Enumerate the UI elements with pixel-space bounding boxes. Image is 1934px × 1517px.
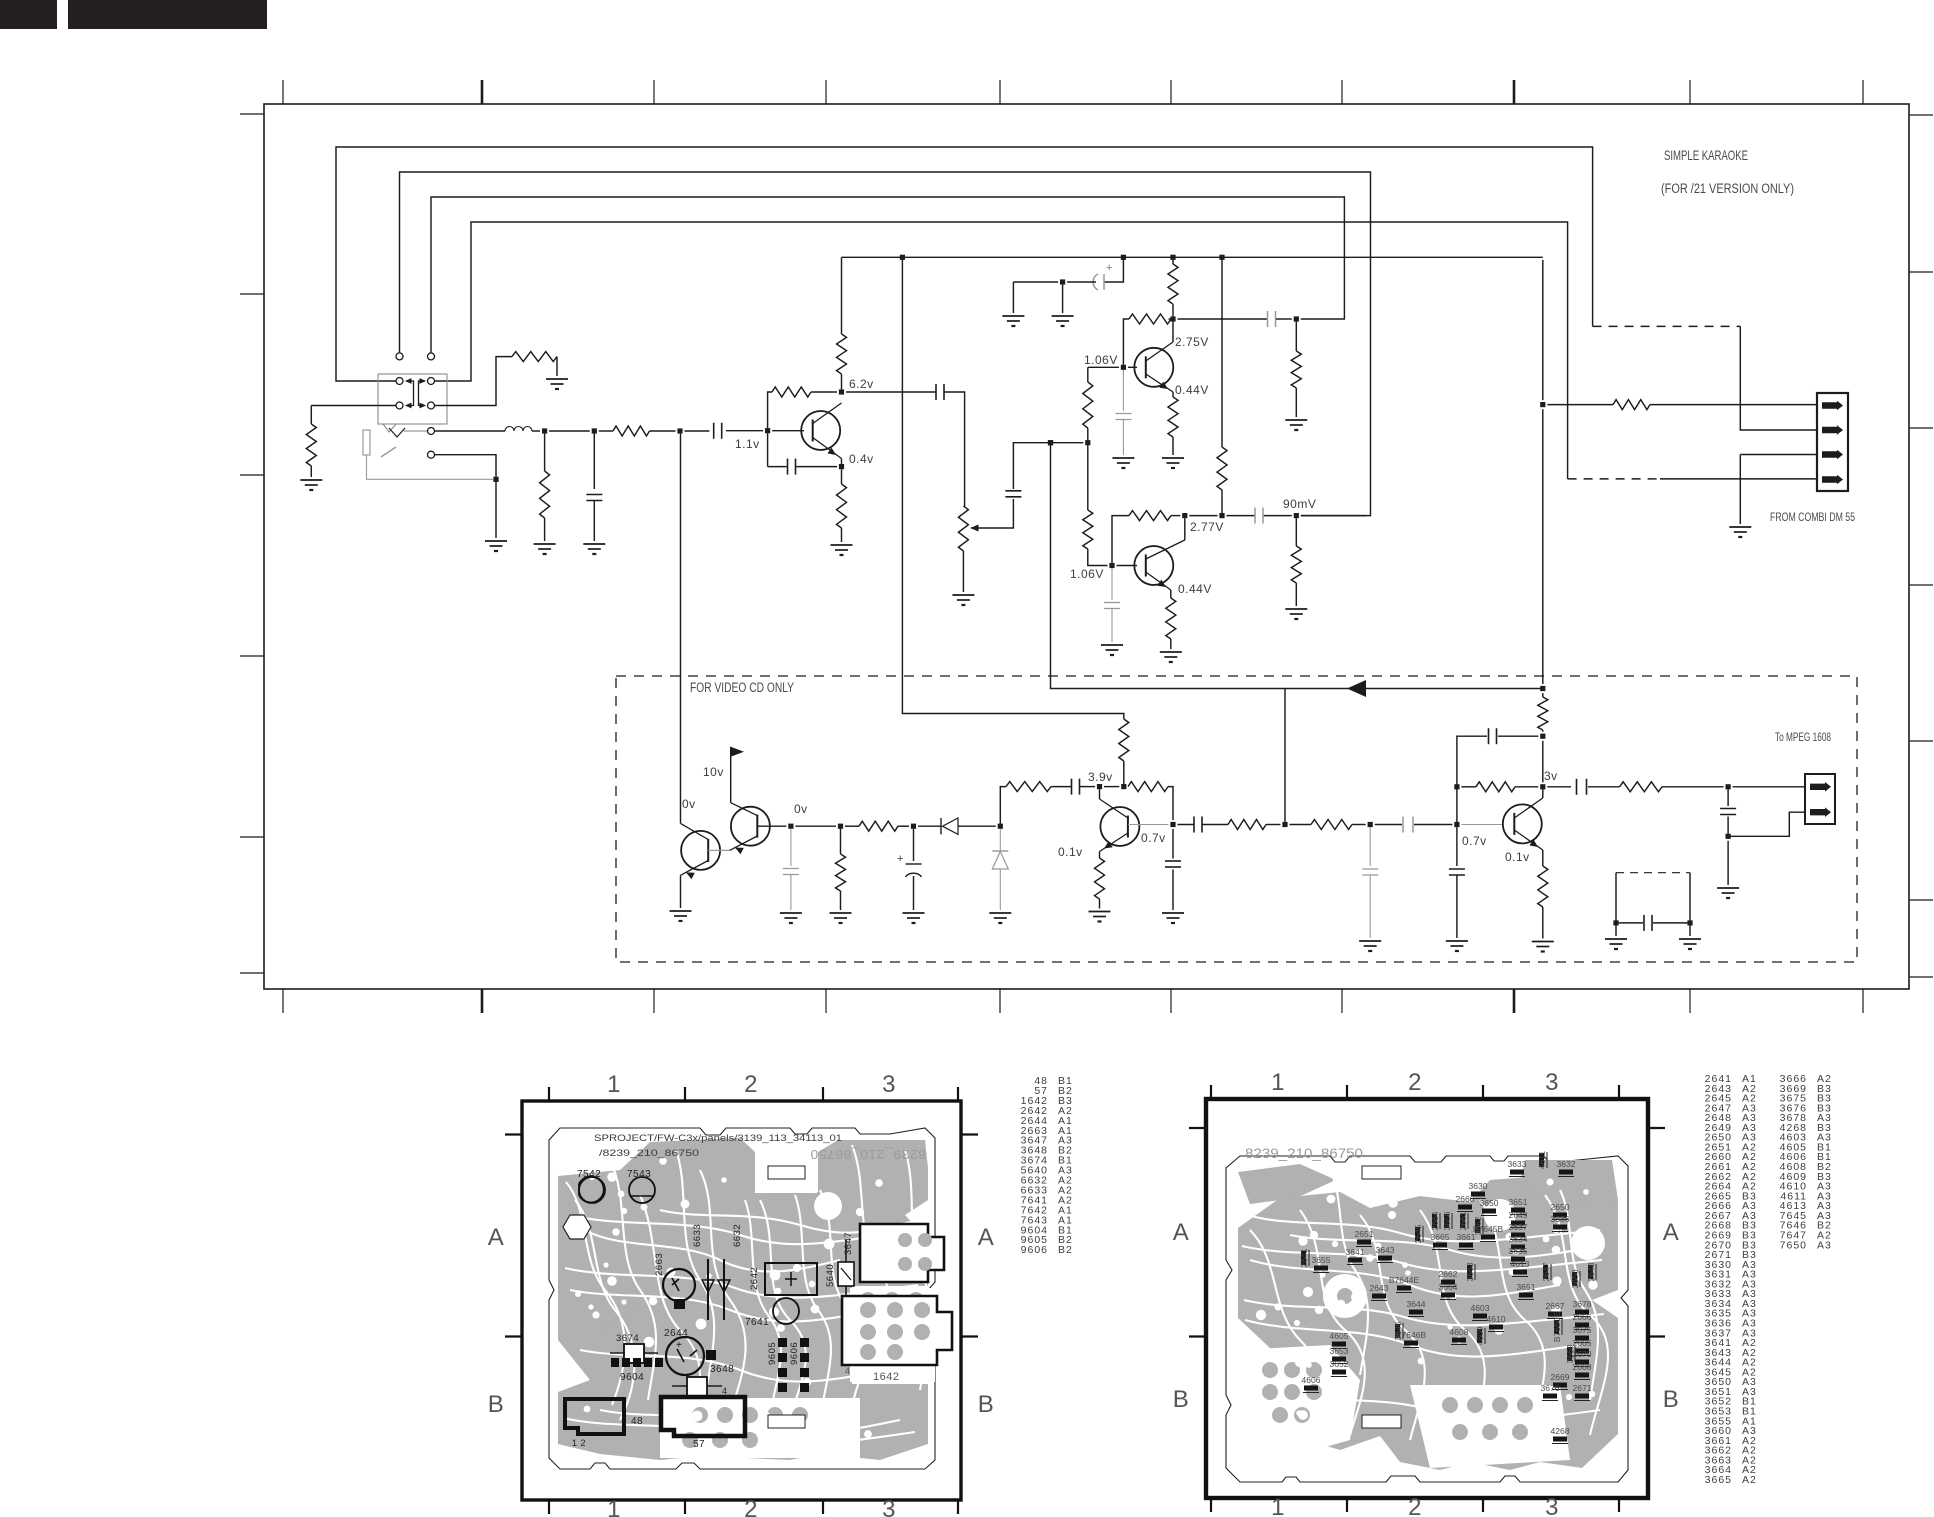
left PCB connector 57 [661, 1397, 745, 1436]
transistor Q4 [681, 831, 720, 870]
left PCB white regions [755, 1155, 817, 1193]
diode 6633 [707, 1259, 709, 1320]
svg-text:3: 3 [1545, 1069, 1559, 1096]
ground [534, 543, 556, 545]
resistor R6 [1295, 518, 1297, 546]
right PCB bottom slot [1362, 1415, 1401, 1428]
component 7641 [773, 1298, 799, 1324]
left PCB pad holes [681, 1200, 690, 1209]
svg-text:2642: 2642 [749, 1267, 760, 1290]
node [542, 428, 547, 433]
svg-text:0.44V: 0.44V [1175, 383, 1209, 397]
frame right tick marks [1909, 114, 1933, 116]
capacitor C15 [1576, 779, 1578, 795]
svg-text:2669: 2669 [1551, 1372, 1570, 1382]
node [677, 428, 682, 433]
ground [485, 540, 507, 542]
node 90mV [1294, 513, 1299, 518]
node Q2 collector [1170, 316, 1175, 321]
pin circle W2 end [396, 353, 403, 360]
right PCB board outline [1226, 1156, 1628, 1482]
switch S1 arrows [406, 381, 414, 406]
wire W1 from switch to karaoke out [336, 147, 1593, 381]
svg-text:3635: 3635 [1509, 1246, 1528, 1256]
capacitor C9 [1172, 829, 1174, 859]
wire [556, 357, 558, 376]
header black bar 2 [68, 0, 267, 29]
left PCB hex pad [563, 1215, 591, 1239]
switch S1 body [378, 374, 447, 424]
resistor R-shunt1 [544, 434, 546, 471]
svg-text:6632: 6632 [732, 1224, 743, 1247]
svg-text:4268: 4268 [1551, 1426, 1570, 1436]
svg-text:1.06V: 1.06V [1084, 353, 1118, 367]
ground [1162, 457, 1184, 459]
svg-text:3.9v: 3.9v [1088, 770, 1113, 784]
svg-text:2670: 2670 [1573, 1349, 1592, 1359]
capacitor C3 [1005, 490, 1021, 492]
svg-text:E7645B: E7645B [1473, 1224, 1504, 1234]
svg-text:2664: 2664 [1430, 1211, 1440, 1230]
transistor Q7 [1503, 804, 1542, 843]
svg-text:B: B [1173, 1386, 1190, 1413]
svg-text:SPROJECT/FW-C3x/panels/3139_11: SPROJECT/FW-C3x/panels/3139_113_34113_01 [594, 1133, 842, 1144]
svg-text:2.77V: 2.77V [1190, 520, 1224, 534]
svg-text:4606: 4606 [1302, 1375, 1321, 1385]
svg-text:0v: 0v [682, 797, 696, 811]
diode D2 zener [999, 829, 1001, 851]
resistor R9 [1006, 782, 1051, 792]
svg-text:3653: 3653 [1330, 1346, 1349, 1356]
wire [310, 466, 312, 477]
wire 3v out [1547, 786, 1571, 788]
ground [1285, 419, 1307, 421]
diode D1 [940, 818, 942, 834]
svg-text:0.44V: 0.44V [1178, 582, 1212, 596]
resistor R-coll Q1 [837, 334, 847, 374]
node Q3 base [1109, 563, 1114, 568]
ground [989, 912, 1011, 914]
jack J1 body [363, 430, 370, 455]
svg-text:3: 3 [882, 1496, 896, 1517]
svg-text:3632: 3632 [1557, 1159, 1576, 1169]
ground [583, 543, 605, 545]
frame top tick marks [282, 80, 284, 104]
resistor R-em Q1 [837, 484, 847, 528]
wire W4 to connector pin 4 [435, 222, 1568, 479]
wire pot to ground [962, 551, 964, 592]
svg-text:3652: 3652 [1330, 1359, 1349, 1369]
svg-text:0.1v: 0.1v [1505, 850, 1530, 864]
node [1540, 402, 1545, 407]
svg-text:3674: 3674 [616, 1333, 639, 1344]
svg-text:3661: 3661 [1457, 1232, 1476, 1242]
svg-text:2663: 2663 [654, 1253, 665, 1276]
wire base to 0.4v cap [767, 433, 769, 466]
node [1182, 513, 1187, 518]
wire long collector feed [1221, 260, 1223, 447]
svg-text:3675: 3675 [1573, 1325, 1592, 1335]
svg-text:3647: 3647 [843, 1232, 854, 1255]
wire Q4 base [708, 849, 729, 851]
node [1454, 822, 1459, 827]
capacitor C8 [1071, 779, 1073, 795]
svg-text:2649: 2649 [1509, 1210, 1528, 1220]
svg-text:+: + [897, 853, 904, 865]
svg-text:9606: 9606 [1021, 1244, 1048, 1256]
svg-text:To MPEG 1608: To MPEG 1608 [1775, 732, 1831, 744]
svg-text:3637: 3637 [1509, 1222, 1528, 1232]
ground [1446, 940, 1468, 942]
transistor Q1 [801, 411, 840, 450]
supply rail wire [842, 256, 1543, 258]
svg-text:7542: 7542 [577, 1169, 601, 1180]
svg-text:3641: 3641 [1346, 1247, 1365, 1257]
wire jack switch to ground node [435, 455, 496, 477]
wire Q6 base [1128, 824, 1169, 826]
connector to MPEG 160B [1805, 774, 1835, 824]
component 7542 [579, 1176, 604, 1202]
component 2663 [663, 1269, 695, 1301]
resistor R-fb Q3 [1171, 515, 1180, 517]
svg-text:2643: 2643 [1370, 1283, 1389, 1293]
svg-text:SIMPLE KARAOKE: SIMPLE KARAOKE [1664, 147, 1748, 163]
svg-text:1: 1 [1271, 1069, 1285, 1096]
left PCB board outline [549, 1128, 935, 1469]
ground [1689, 926, 1691, 937]
wire into Q4 [680, 434, 682, 824]
ground [1729, 526, 1751, 528]
resistor R-sw [512, 352, 557, 362]
svg-text:8239_210_86750: 8239_210_86750 [1245, 1145, 1363, 1161]
supply flag 10v [730, 747, 744, 758]
svg-text:6633: 6633 [692, 1224, 703, 1247]
svg-text:7641: 7641 [745, 1317, 769, 1328]
svg-text:3: 3 [1545, 1494, 1559, 1517]
svg-text:3648: 3648 [710, 1364, 734, 1375]
dashed box FOR VIDEO CD ONLY [616, 676, 1857, 962]
wire to coupling [1178, 824, 1195, 826]
right PCB frame [1206, 1099, 1648, 1498]
resistor R10 from supply [1119, 719, 1129, 761]
wire Q5 collector to 10v flag [731, 803, 758, 816]
supply drop chain [1542, 260, 1544, 400]
svg-text:FOR VIDEO CD ONLY: FOR VIDEO CD ONLY [690, 680, 794, 695]
ground [952, 594, 974, 596]
svg-text:2662: 2662 [1439, 1269, 1458, 1279]
wire to base network [1290, 824, 1312, 826]
svg-text:3663: 3663 [1465, 1262, 1475, 1281]
resistor R14 [1461, 786, 1476, 788]
wire switch lower-left [311, 405, 395, 407]
node [592, 428, 597, 433]
wire supply decoupling [1104, 257, 1123, 282]
svg-text:3651: 3651 [1517, 1282, 1536, 1292]
wire [532, 430, 540, 432]
left PCB index ticks [548, 1087, 550, 1101]
inductor L1 [505, 427, 514, 432]
resistor R-coll Q2 [1172, 260, 1174, 264]
left PCB copper texture [566, 1182, 625, 1405]
resistor R13 [1311, 820, 1352, 830]
svg-text:B: B [488, 1391, 505, 1418]
component 2642 [765, 1263, 817, 1295]
capacitor C-base Q3 [1111, 568, 1113, 600]
ground [1162, 912, 1184, 914]
resistor R-in-left [306, 424, 316, 466]
svg-text:2668: 2668 [1573, 1362, 1592, 1372]
capacitor C-fb Q1 [787, 459, 789, 475]
transistor Q2 [1134, 348, 1173, 387]
sub box with capacitor [1615, 873, 1617, 923]
left PCB jack B outline [842, 1296, 952, 1365]
jack J1 switch lever [381, 447, 396, 457]
svg-text:2671: 2671 [1573, 1383, 1592, 1393]
resistor R16 [1620, 782, 1662, 792]
svg-text:4608: 4608 [1450, 1327, 1469, 1337]
jack J1 switch pin [428, 451, 435, 458]
wire combi pin3 ground [1740, 454, 1817, 456]
header black bar 1 [0, 0, 57, 29]
diode 6632 [723, 1259, 725, 1320]
left PCB frame [522, 1101, 961, 1500]
resistor R5 [1291, 351, 1301, 388]
svg-text:4609: 4609 [1475, 1326, 1485, 1345]
svg-text:3643: 3643 [1376, 1245, 1395, 1255]
capacitor C13 [1456, 827, 1458, 866]
wire Q5 output row [757, 825, 786, 827]
svg-text:A: A [1173, 1219, 1190, 1246]
svg-text:9606: 9606 [789, 1342, 800, 1365]
node 3v [1540, 784, 1545, 789]
node [1454, 784, 1459, 789]
capacitor C-shunt [593, 434, 595, 489]
jack J1 tip link [404, 430, 427, 432]
resistor R-fb Q2 [1169, 318, 1172, 320]
wire 6.2v to coupling cap [846, 391, 936, 393]
svg-text:B7644E: B7644E [1389, 1275, 1420, 1285]
capacitor C12 [1369, 827, 1371, 866]
svg-text:1642: 1642 [873, 1371, 899, 1383]
svg-text:0.4v: 0.4v [849, 452, 874, 466]
svg-text:4610: 4610 [1487, 1314, 1506, 1324]
wire [1189, 515, 1217, 517]
ground [1285, 608, 1307, 610]
node 2.77V [1219, 513, 1224, 518]
ground [300, 479, 322, 481]
transistor Q3 [1134, 546, 1173, 585]
wire Q4 emitter ground [680, 875, 682, 908]
node [1726, 834, 1731, 839]
node [911, 824, 916, 829]
wire Q2 base divider [1088, 366, 1119, 368]
resistor R-em Q3 [1170, 590, 1172, 598]
node [1368, 822, 1373, 827]
svg-text:2666: 2666 [1573, 1312, 1592, 1322]
svg-text:3: 3 [882, 1071, 896, 1098]
resistor R-div1 [1083, 382, 1093, 428]
svg-text:3664: 3664 [1439, 1282, 1458, 1292]
svg-text:3665: 3665 [1431, 1232, 1450, 1242]
svg-text:9604: 9604 [620, 1372, 644, 1383]
right PCB pad holes [1338, 1360, 1347, 1369]
svg-text:2661: 2661 [1458, 1211, 1468, 1230]
node [1540, 686, 1545, 691]
svg-text:0v: 0v [794, 802, 808, 816]
wire Q5 emitter to Q4 base [730, 836, 758, 850]
svg-text:0.1v: 0.1v [1058, 845, 1083, 859]
component 9605 9606 pads [778, 1338, 787, 1347]
svg-text:2645: 2645 [1413, 1224, 1423, 1243]
ground [1112, 457, 1134, 459]
svg-text:2660: 2660 [1456, 1194, 1475, 1204]
svg-text:3651: 3651 [1509, 1197, 1528, 1207]
svg-text:3634: 3634 [1509, 1234, 1528, 1244]
svg-text:3650: 3650 [1480, 1198, 1499, 1208]
switch S1 contact pins [396, 378, 403, 385]
wire W3 return line [431, 197, 1344, 352]
left PCB pads [860, 1292, 876, 1308]
svg-text:3656: 3656 [1442, 1211, 1452, 1230]
right PCB small components [1510, 1170, 1524, 1175]
left PCB connector 48 [565, 1399, 624, 1434]
wire to MPEG pin2 [1728, 812, 1805, 836]
supply rail top [841, 257, 843, 334]
svg-text:2647: 2647 [1541, 1262, 1551, 1281]
node [1282, 822, 1287, 827]
component 5640 [838, 1262, 854, 1286]
wire branch from arrow line [1284, 689, 1286, 822]
resistor R-coll Q3 [1217, 447, 1227, 490]
resistor R-em Q7 [1542, 850, 1544, 866]
svg-text:90mV: 90mV [1283, 497, 1316, 511]
schematic frame border [264, 104, 1909, 989]
right PCB index ticks [1210, 1085, 1212, 1099]
svg-text:5640: 5640 [825, 1264, 836, 1287]
wire to grounds [1012, 282, 1014, 313]
ground [1101, 644, 1123, 646]
svg-text:1.1v: 1.1v [735, 437, 760, 451]
svg-text:A: A [488, 1224, 505, 1251]
svg-text:0.7v: 0.7v [1141, 831, 1166, 845]
svg-text:3655: 3655 [1312, 1255, 1331, 1265]
wire up from diode node [1000, 787, 1006, 824]
ground [1160, 651, 1182, 653]
capacitor C7 polarized [913, 829, 915, 861]
svg-text:57: 57 [693, 1439, 705, 1450]
ground [1615, 926, 1617, 937]
svg-text:+: + [676, 1340, 682, 1351]
ground [903, 912, 925, 914]
resistor R-em Q2 [1172, 392, 1174, 397]
resistor R-fb Q1 [815, 391, 837, 393]
node [1060, 279, 1065, 284]
svg-text:7650: 7650 [1780, 1239, 1807, 1251]
svg-text:3678: 3678 [1573, 1299, 1592, 1309]
svg-text:1.06V: 1.06V [1070, 567, 1104, 581]
svg-text:2648: 2648 [1586, 1262, 1596, 1281]
resistor R7 [859, 821, 898, 831]
svg-text:2651: 2651 [1355, 1229, 1374, 1239]
node Q1 base [765, 428, 770, 433]
svg-text:2641: 2641 [1299, 1248, 1309, 1267]
capacitor C11 [1402, 817, 1404, 833]
svg-text:48: 48 [631, 1416, 643, 1427]
svg-text:E7646B: E7646B [1396, 1330, 1427, 1340]
capacitor C-in [713, 423, 715, 439]
resistor R17 [1613, 400, 1650, 410]
svg-text:2: 2 [1408, 1069, 1422, 1096]
svg-text:2: 2 [1408, 1494, 1422, 1517]
svg-text:2: 2 [744, 1071, 758, 1098]
svg-text:3644: 3644 [1407, 1299, 1426, 1309]
wire W2 return line [400, 172, 1371, 516]
capacitor C2 [935, 384, 937, 400]
component 3674 [624, 1344, 644, 1363]
svg-text:A3: A3 [1817, 1239, 1832, 1251]
svg-text:4611: 4611 [1537, 1151, 1547, 1170]
svg-text:B: B [1663, 1386, 1680, 1413]
ground [546, 378, 568, 380]
svg-text:2667: 2667 [1546, 1301, 1565, 1311]
wire to ground [1727, 841, 1729, 885]
resistor R-div2 [1083, 510, 1093, 549]
capacitor C16 [1727, 789, 1729, 806]
svg-text:1 2: 1 2 [572, 1438, 586, 1448]
capacitor C5 [1227, 515, 1255, 517]
component 3648 [687, 1377, 707, 1396]
right PCB white regions [1238, 1345, 1360, 1460]
node 0.4v [839, 464, 844, 469]
resistor R-em Q6 [1099, 852, 1101, 859]
svg-text:1: 1 [1271, 1494, 1285, 1517]
svg-text:7543: 7543 [627, 1169, 651, 1180]
node [1085, 440, 1090, 445]
wire emitter [841, 459, 843, 465]
jack J1 tip pin [428, 428, 435, 435]
wire with direction arrow [1051, 443, 1543, 689]
potentiometer VR1 [958, 506, 968, 551]
wire feedback loop [1457, 736, 1487, 822]
svg-text:6.2v: 6.2v [849, 377, 874, 391]
transistor Q6 [1100, 807, 1139, 846]
capacitor C-el polarized [1103, 274, 1105, 290]
ground [831, 544, 853, 546]
svg-text:2644: 2644 [664, 1328, 688, 1339]
svg-text:3665: 3665 [1705, 1474, 1732, 1486]
left PCB jack A outline [860, 1224, 944, 1282]
svg-text:1: 1 [607, 1496, 621, 1517]
frame bottom tick marks [282, 989, 284, 1013]
right PCB pads [1262, 1362, 1278, 1378]
ground [780, 912, 802, 914]
node [1540, 734, 1545, 739]
svg-text:+: + [1106, 262, 1113, 274]
resistor R-mic [613, 426, 650, 436]
left PCB top slot [768, 1166, 805, 1179]
svg-text:3636: 3636 [1551, 1214, 1570, 1224]
resistor R12 [1228, 820, 1266, 830]
node Q2 base [1121, 365, 1126, 370]
wire jack tip row [435, 430, 505, 432]
node [1048, 440, 1053, 445]
svg-text:3630: 3630 [1469, 1181, 1488, 1191]
capacitor C17 [1643, 915, 1645, 931]
capacitor C4 [1267, 311, 1269, 327]
capacitor C6 [790, 829, 792, 866]
svg-text:4613: 4613 [1511, 1259, 1530, 1269]
svg-text:2.75V: 2.75V [1175, 335, 1209, 349]
